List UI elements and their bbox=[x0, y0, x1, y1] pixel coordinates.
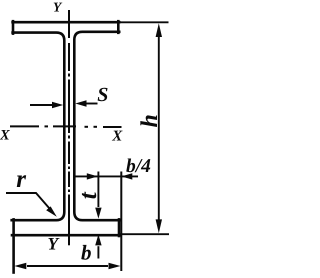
svg-text:X: X bbox=[111, 129, 123, 145]
top flange left tip edge bbox=[12, 21, 15, 33]
svg-text:r: r bbox=[16, 166, 26, 193]
svg-text:b: b bbox=[81, 241, 92, 265]
bottom flange bottom edge bbox=[12, 234, 120, 237]
top flange top edge bbox=[13, 21, 120, 24]
top flange underside left + fillet + web left line + bottom fillet + bottom flange top edge left bbox=[12, 33, 65, 221]
h bottom extension line bbox=[120, 233, 169, 235]
t lower arrow bbox=[95, 234, 101, 258]
svg-text:t: t bbox=[75, 191, 102, 199]
top flange right tip edge bbox=[117, 21, 120, 33]
svg-text:X: X bbox=[0, 127, 10, 143]
S dimension right arrow bbox=[75, 100, 97, 106]
top flange underside right + fillet + web right line + bottom fillet + bottom flange top edge right bbox=[74, 32, 120, 220]
S dimension left arrow bbox=[30, 102, 63, 108]
svg-text:S: S bbox=[97, 84, 108, 106]
h top extension line bbox=[119, 21, 168, 23]
I-beam outline bbox=[12, 21, 120, 272]
bottom flange left edge + b left extension line bbox=[12, 219, 15, 272]
b/4 dimension line with outside arrows bbox=[75, 173, 138, 179]
svg-text:b/4: b/4 bbox=[126, 156, 151, 177]
right long extension line (b/4 and b) bbox=[120, 172, 122, 272]
h dimension line with arrows both ends bbox=[156, 23, 162, 233]
b/4 left extension line + t upper arrow bbox=[95, 172, 101, 219]
r leader line with arrow bbox=[6, 193, 57, 217]
horizontal centerline X-X (dash-dot) bbox=[10, 125, 122, 128]
vertical centerline Y-Y (dash-dot) bbox=[68, 10, 70, 245]
svg-text:h: h bbox=[137, 114, 163, 127]
bottom flange right edge bbox=[118, 219, 121, 236]
b dimension line with arrows bbox=[14, 263, 120, 269]
